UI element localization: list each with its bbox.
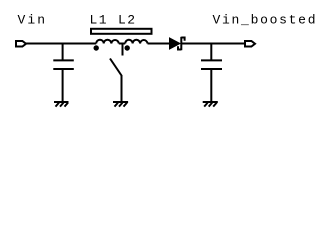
- inductor L1: [96, 40, 119, 44]
- port Vin_boosted: [245, 41, 255, 47]
- wire: diode to output port: [182, 43, 245, 45]
- wire: junction down to input capacitor: [62, 44, 64, 61]
- switch blade: [110, 59, 122, 76]
- diode cathode bar with schottky hooks: [178, 37, 185, 50]
- wire: input port to L1: [26, 43, 96, 45]
- polarity dot L2: [125, 45, 130, 50]
- ground (input capacitor): [54, 102, 69, 107]
- capacitor (input, top plate): [53, 59, 74, 61]
- inductor L2: [125, 40, 147, 44]
- port Vin: [16, 41, 26, 47]
- polarity dot L1: [94, 45, 99, 50]
- svg-text:Vin_boosted: Vin_boosted: [213, 13, 316, 28]
- wire: output capacitor to ground: [210, 69, 212, 102]
- ground (switch): [113, 102, 128, 107]
- wire: between L1 and L2: [119, 43, 125, 45]
- wire: junction down to output capacitor: [210, 44, 212, 61]
- wire: junction down to switch: [122, 44, 124, 56]
- wire: L2 to diode: [148, 43, 170, 45]
- capacitor (output, top plate): [201, 59, 222, 61]
- transformer core bar: [91, 29, 152, 34]
- svg-text:Vin: Vin: [18, 13, 46, 28]
- ground (output capacitor): [203, 102, 218, 107]
- wire: input capacitor to ground: [62, 69, 64, 102]
- capacitor (output, bottom plate): [201, 68, 222, 70]
- capacitor (input, bottom plate): [53, 68, 74, 70]
- diode D1 (Schottky) triangle: [170, 38, 181, 49]
- svg-text:L2: L2: [118, 13, 135, 28]
- svg-text:L1: L1: [90, 13, 107, 28]
- wire: switch to ground: [121, 75, 123, 102]
